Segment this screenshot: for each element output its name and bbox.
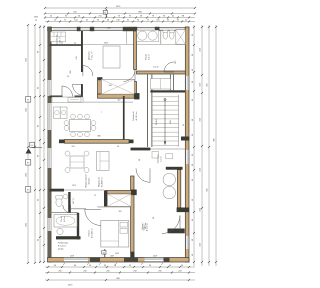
svg-text:x: x (101, 112, 102, 114)
bath fixtures line (126, 31, 185, 45)
wall wc right (68, 192, 70, 213)
dining table and chairs (64, 114, 96, 137)
svg-text:254: 254 (200, 243, 202, 246)
svg-text:254: 254 (200, 168, 202, 171)
svg-text:90: 90 (153, 217, 155, 219)
wall hall top (50, 44, 83, 46)
svg-text:4,91 m²: 4,91 m² (59, 36, 62, 43)
wall bath right (77, 213, 79, 240)
svg-text:138: 138 (109, 85, 112, 87)
svg-text:Nappali+étkező: Nappali+étkező (85, 174, 88, 187)
svg-text:205: 205 (72, 146, 75, 148)
svg-text:45: 45 (74, 43, 76, 45)
svg-text:Gépészet: Gépészet (157, 154, 160, 163)
wc toilet (56, 194, 68, 206)
svg-text:=29,5: =29,5 (170, 120, 172, 124)
toilet and bidet (163, 30, 174, 39)
small annotation texts (57, 28, 186, 256)
wall bath bottom (56, 236, 81, 239)
door bathroom (164, 62, 174, 72)
svg-text:90: 90 (192, 134, 194, 136)
wall below stairs (131, 148, 186, 151)
svg-text:90: 90 (192, 219, 194, 221)
left marker boxes (26, 97, 31, 193)
svg-text:16: 16 (183, 124, 185, 126)
top exterior wall (48, 27, 190, 31)
kitchen south line (83, 101, 133, 103)
svg-text:Szoba 1: Szoba 1 (142, 221, 144, 229)
right dimension lines (192, 25, 217, 266)
door mech (136, 168, 150, 182)
door kitchen (62, 86, 73, 97)
bath partition (160, 31, 162, 44)
wall vertical entry (81, 31, 83, 97)
shower (176, 30, 186, 44)
top dimension lines (34, 6, 196, 23)
living table and chairs (65, 151, 89, 173)
svg-text:14,5: 14,5 (88, 59, 92, 61)
entry wardrobe (51, 32, 66, 42)
bottom dimension lines (45, 265, 195, 287)
pantry2 void box (107, 194, 131, 206)
svg-text:24-Pf: 24-Pf (70, 256, 75, 258)
wall bedroom right tan (130, 176, 134, 258)
svg-text:38-Pf: 38-Pf (34, 17, 39, 19)
right exterior wall (185, 27, 189, 262)
svg-text:Szoba 1: Szoba 1 (88, 230, 90, 237)
kitchen top line (83, 43, 134, 45)
svg-text:90: 90 (192, 179, 194, 181)
level marker (26, 142, 43, 153)
wall mech top (166, 167, 183, 170)
svg-text:90: 90 (192, 99, 194, 101)
svg-text:24-Pf: 24-Pf (153, 256, 158, 258)
svg-text:254: 254 (200, 48, 202, 51)
vestibule wall (170, 75, 173, 91)
svg-text:90: 90 (192, 81, 194, 83)
svg-text:A: 48,07 m²: A: 48,07 m² (101, 177, 104, 187)
door room br (162, 216, 180, 234)
svg-text:Fürdőszoba: Fürdőszoba (58, 242, 69, 245)
bed (101, 221, 129, 248)
svg-text:75: 75 (94, 195, 96, 197)
left exterior wall (48, 27, 52, 262)
section mark top (103, 9, 107, 17)
bathtub (54, 215, 77, 235)
pantry2 walls (97, 190, 136, 207)
svg-text:254: 254 (200, 208, 202, 211)
tan band living (59, 140, 134, 144)
svg-text:90: 90 (61, 43, 63, 45)
svg-text:2,45: 2,45 (76, 56, 78, 59)
svg-text:302: 302 (118, 100, 121, 102)
door corridor (124, 70, 136, 82)
svg-text:90: 90 (192, 69, 194, 71)
svg-text:0,0: 0,0 (31, 145, 34, 147)
svg-text:90: 90 (192, 254, 194, 256)
wall living right (123, 96, 125, 140)
door bedroom (85, 209, 101, 225)
double washbasin (137, 30, 159, 41)
svg-text:90/2: 90/2 (70, 70, 72, 73)
svg-text:90: 90 (192, 239, 194, 241)
svg-text:Konyha: Konyha (89, 51, 91, 59)
svg-text:14,5 m²: 14,5 m² (144, 222, 147, 229)
wall stair top (150, 90, 185, 92)
pantry1 void box (101, 79, 134, 94)
kitchen appliances (54, 107, 68, 118)
svg-text:90: 90 (192, 54, 194, 56)
wall room br (168, 229, 185, 234)
entry bench (151, 79, 171, 89)
svg-text:WC 1,7: WC 1,7 (73, 198, 75, 204)
svg-text:10,1 m²: 10,1 m² (91, 51, 94, 58)
wall mech right tan (177, 170, 180, 208)
svg-text:38-Pf: 38-Pf (104, 42, 108, 44)
door hall lower (73, 84, 83, 95)
svg-text:38-Pf: 38-Pf (107, 28, 112, 30)
wall bottomleft (50, 189, 105, 192)
wall wc/bath divider (50, 212, 79, 214)
svg-text:A: 14,02 m²: A: 14,02 m² (90, 228, 93, 238)
svg-text:Fürdő: Fürdő (145, 53, 148, 59)
sofa (96, 152, 109, 171)
svg-text:4,2 m²: 4,2 m² (63, 216, 66, 222)
svg-text:90: 90 (192, 164, 194, 166)
svg-text:90: 90 (192, 119, 194, 121)
wall block right landing (181, 137, 189, 141)
svg-text:285: 285 (119, 211, 122, 213)
left dimension lines (26, 24, 45, 264)
wall mech bottom (177, 208, 190, 213)
svg-text:486: 486 (97, 136, 100, 138)
svg-text:24-Pf: 24-Pf (110, 256, 115, 258)
svg-text:2,15 m²: 2,15 m² (153, 66, 159, 69)
svg-text:A: 6,15 m²: A: 6,15 m² (58, 245, 67, 248)
svg-text:90: 90 (117, 146, 119, 148)
wall bath bottom tan (137, 71, 186, 74)
svg-text:Közlekedő: Közlekedő (133, 112, 135, 121)
svg-text:90: 90 (192, 199, 194, 201)
svg-text:254: 254 (200, 83, 202, 86)
svg-text:90: 90 (192, 34, 194, 36)
svg-text:greslap: greslap (58, 248, 64, 251)
svg-text:Nappali+étk: Nappali+étk (98, 177, 101, 187)
svg-text:24: 24 (35, 20, 37, 22)
door hall upper (83, 66, 93, 77)
section mark bottom (102, 249, 106, 257)
kitchen counter (52, 97, 83, 103)
svg-text:Közlekedő: Közlekedő (57, 34, 59, 45)
svg-text:5,1 m²: 5,1 m² (160, 156, 163, 162)
door wc (63, 205, 71, 213)
svg-text:254: 254 (200, 118, 202, 121)
svg-text:4,9: 4,9 (67, 76, 70, 78)
boilers (152, 152, 176, 199)
svg-text:24-Pf: 24-Pf (115, 253, 120, 255)
svg-text:90: 90 (139, 159, 141, 161)
labels room br (144, 223, 149, 232)
svg-text:A: 10,2 m²: A: 10,2 m² (135, 111, 138, 120)
wall stair left (148, 75, 152, 148)
svg-text:90: 90 (192, 154, 194, 156)
kitchen island (103, 46, 120, 68)
svg-text:Fürdő: Fürdő (60, 217, 63, 222)
bottom exterior wall (48, 256, 190, 265)
svg-text:24 Pf: 24 Pf (72, 185, 76, 187)
pantry1 walls (97, 77, 139, 99)
staircase (152, 95, 178, 147)
wall corridor tan (134, 31, 137, 94)
svg-text:6,2 m²: 6,2 m² (148, 54, 151, 60)
svg-text:Konyha: Konyha (89, 177, 91, 184)
svg-text:17x17,6: 17x17,6 (156, 119, 158, 125)
wall hall bedroom (70, 208, 86, 210)
wall hall bottom (50, 96, 83, 98)
